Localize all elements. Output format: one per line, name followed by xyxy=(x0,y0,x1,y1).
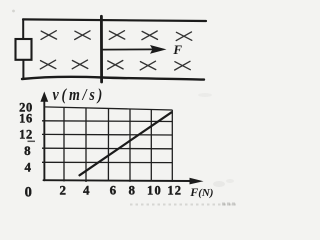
svg-text:4: 4 xyxy=(83,183,90,198)
svg-text:8: 8 xyxy=(24,143,31,158)
svg-text:16: 16 xyxy=(19,112,33,126)
svg-text:F: F xyxy=(172,42,182,57)
svg-text:8: 8 xyxy=(128,183,135,198)
svg-text:2: 2 xyxy=(60,183,67,198)
svg-text:0: 0 xyxy=(25,184,32,200)
svg-text:v(m/s): v(m/s) xyxy=(53,86,106,104)
svg-text:6: 6 xyxy=(110,183,117,198)
svg-text:4: 4 xyxy=(25,160,32,175)
svg-text:F(N): F(N) xyxy=(189,185,213,199)
svg-text:12: 12 xyxy=(167,184,182,198)
svg-text:12: 12 xyxy=(19,128,33,142)
svg-text:10: 10 xyxy=(147,184,162,198)
